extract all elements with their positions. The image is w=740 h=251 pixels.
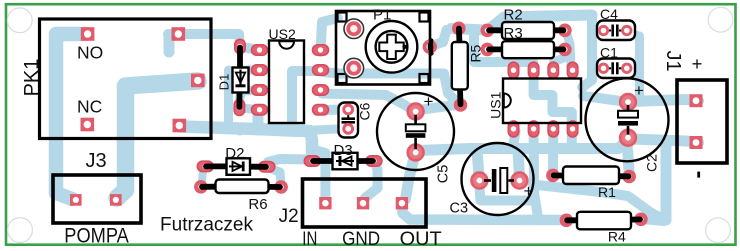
- wire: US1 pin b1 down joining band: [513, 131, 516, 146]
- pad R4 left: [560, 214, 574, 228]
- pad relay mid-right: [191, 74, 205, 88]
- wire: C6 bottom stub to band: [315, 129, 343, 130]
- wire: D2 right pad to D3 left pad: [268, 159, 309, 162]
- wire: stub to C4 left pad: [592, 28, 601, 37]
- wire: band branch down to C3 left pad: [477, 150, 479, 176]
- wire: US1 pin b2 down joining bottom band: [534, 131, 538, 217]
- svg-text:C1: C1: [600, 44, 618, 60]
- wire: R3 right pad jog down to US1 pin t3: [553, 52, 564, 68]
- pad C3 plus: [512, 173, 528, 189]
- wire: J2 OUT pad down then right along bottom to R4 left pad: [402, 205, 564, 220]
- wire: stub down to US1 pin t1: [509, 62, 519, 69]
- pad R5 top: [452, 22, 466, 36]
- wire: drop from R2 band down to US1 pins t1/t2: [474, 31, 533, 69]
- svg-text:R5: R5: [468, 44, 484, 62]
- wire: R2 right pad down to US1 pin t4: [567, 33, 572, 66]
- svg-text:+: +: [424, 92, 434, 111]
- svg-text:C3: C3: [450, 201, 469, 217]
- svg-text:+: +: [692, 53, 703, 74]
- wire: D2 right pad down to R6 right pad: [268, 168, 282, 186]
- pad R3 left: [481, 43, 495, 57]
- pad R1 left: [546, 169, 560, 183]
- wire: stub to C1 left pad: [592, 63, 601, 72]
- svg-text:D2: D2: [225, 145, 244, 162]
- lead R4 right: [629, 216, 640, 222]
- wire: C2 bottom pad right to J1 minus pad: [630, 139, 699, 142]
- wire: C3 left pad stub down to mid band: [479, 186, 480, 201]
- lead R2 right: [553, 27, 564, 33]
- pad R2 left: [481, 24, 495, 38]
- pads US1 top row: [508, 62, 578, 78]
- P1 pad left-bottom (ring): [344, 58, 364, 78]
- pad relay bottom-right: [173, 119, 187, 133]
- wire: US2 pin6 right to C5 top pad: [322, 94, 413, 111]
- wire: C5 bottom pad right band across C3 top: [418, 149, 618, 151]
- pad J2 OUT: [396, 197, 408, 209]
- svg-text:POMPA: POMPA: [64, 224, 129, 248]
- pads US2 left column pins 1-4: [252, 45, 268, 115]
- svg-text:US2: US2: [269, 26, 296, 42]
- pad R6 right: [274, 180, 288, 194]
- pad C5 minus: [408, 145, 424, 161]
- lead D3 right: [356, 158, 373, 164]
- wire: mid band under C3 to b2 riser: [481, 196, 535, 206]
- wire: C5 top pad right to R5 bottom pad: [419, 105, 457, 110]
- wire: US2 pin8 up and right under P1: [321, 18, 339, 52]
- pad J3-1: [70, 194, 82, 206]
- wire: NO pad left & down to J3 left pad: [56, 34, 86, 199]
- svg-text:C5: C5: [436, 165, 452, 184]
- resistor R5 body: [452, 42, 468, 90]
- svg-text:R3: R3: [504, 25, 523, 42]
- mounting hole bottom-left: [8, 218, 33, 243]
- pad J2 IN: [319, 197, 331, 209]
- lead R3 left: [489, 47, 504, 53]
- svg-text:Futrzaczek: Futrzaczek: [160, 213, 253, 235]
- wire: band under R1 from C3 right area curving down to riser: [533, 185, 663, 220]
- lead R1 right: [617, 173, 629, 179]
- pad R2 right: [558, 24, 572, 38]
- svg-text:J1: J1: [662, 50, 684, 71]
- IC US2 outline: [269, 41, 304, 124]
- IC US1 outline: [503, 79, 581, 124]
- svg-text:C6: C6: [357, 102, 373, 120]
- wire: vertical feeder left of C4/C1: [582, 15, 592, 88]
- wire: R2 left pad jog up to top band toward C4: [488, 15, 592, 30]
- wire: US2 pin7 right band across P1 bottom to R5 bottom pad: [322, 72, 457, 103]
- lead R4 left: [567, 217, 579, 223]
- svg-text:D1: D1: [217, 74, 232, 91]
- capacitor C3 outline + symbol: [462, 143, 534, 215]
- pad C5 plus: [408, 104, 424, 120]
- diode D3 body + symbol: [333, 153, 358, 170]
- wire: US2 pin7 left then down joining band: [292, 71, 318, 128]
- wire: relay top-right pad right, down to D1 top, right to US2 pin1: [168, 34, 257, 50]
- pads US2 right column pins 8-5: [313, 45, 329, 115]
- connector J1 outline: [677, 80, 727, 163]
- wire: stub C1 right pad to feeder: [627, 68, 640, 69]
- svg-text:R4: R4: [608, 228, 626, 244]
- pad D1 top: [235, 39, 245, 53]
- wire: J2 IN pad up then left to D3 net: [314, 150, 325, 201]
- svg-text:P1: P1: [373, 7, 391, 24]
- resistor R2 body: [502, 22, 554, 39]
- wire: C2 bottom pad down to R1 right pad: [627, 140, 630, 174]
- pad D2 right: [259, 162, 275, 172]
- resistor R3 body: [502, 41, 554, 58]
- svg-text:NC: NC: [77, 97, 102, 117]
- capacitor C1 body: [597, 59, 635, 79]
- wire: US1 right edge band to C2 top pad: [583, 96, 624, 102]
- pad R1 right: [622, 170, 636, 184]
- wire: US1 internal stair pin t2 to pin b4: [534, 74, 572, 126]
- relay PK1 outline: [40, 19, 212, 139]
- pad J2 GND: [357, 197, 369, 209]
- pad D3 left: [304, 156, 320, 166]
- wire: US2 pin4 to D1 bottom pad: [241, 108, 257, 110]
- lead R3 right: [553, 47, 564, 53]
- lead R2 left: [489, 27, 504, 33]
- wire: US2 pin5 to C6 top pad: [322, 105, 343, 116]
- pad R3 right: [558, 43, 572, 57]
- pad C2 minus: [620, 130, 636, 146]
- pad J1 minus: [690, 136, 703, 149]
- svg-text:NO: NO: [77, 43, 103, 63]
- lead D1 bottom: [236, 92, 242, 107]
- capacitor C5 outline + symbol: [377, 93, 454, 170]
- svg-text:PK1: PK1: [21, 59, 43, 97]
- pad relay NO: [81, 27, 95, 41]
- svg-text:R6: R6: [248, 196, 267, 213]
- svg-text:IN: IN: [302, 228, 317, 250]
- wire: band end up to C2 bottom vertical: [618, 144, 623, 149]
- wire: D2 left pad down to R6 left pad: [202, 167, 204, 185]
- pad D1 bottom: [234, 100, 244, 116]
- trimmer P1 body: [336, 11, 435, 85]
- svg-text:R1: R1: [598, 184, 616, 200]
- pad R6 left: [194, 180, 208, 194]
- pad D2 left: [197, 161, 213, 171]
- svg-text:GND: GND: [342, 228, 380, 250]
- mounting hole top-left: [7, 8, 32, 33]
- lead P1 wiper: [428, 41, 434, 53]
- lead R1 left: [554, 172, 566, 178]
- wire: C3 right pad up joining band: [518, 151, 520, 177]
- pad R4 right: [634, 213, 648, 227]
- svg-text:D3: D3: [334, 142, 353, 159]
- lead D1 top: [237, 48, 243, 69]
- diode D2 body + symbol: [227, 158, 251, 175]
- mounting hole top-right: [708, 7, 733, 32]
- wire: R4 right pad connector to riser: [642, 219, 664, 221]
- pad relay NC: [81, 118, 95, 132]
- svg-text:C2: C2: [644, 154, 660, 172]
- capacitor C6 body: [339, 103, 359, 138]
- svg-text:R2: R2: [504, 6, 523, 23]
- pad J1 plus: [690, 94, 703, 107]
- wire: US1 pin b4 down joining band: [567, 131, 577, 146]
- svg-text:C4: C4: [600, 6, 618, 22]
- lead D2 right: [248, 164, 266, 170]
- diode D1 body + symbol: [233, 68, 249, 93]
- capacitor C4 body: [597, 21, 635, 41]
- wire: relay top-right stub down to coil band: [164, 35, 175, 52]
- pads US1 bottom row: [508, 121, 578, 137]
- resistor R1 body: [563, 167, 619, 185]
- svg-text:J2: J2: [279, 206, 299, 227]
- wire: relay bottom-right pad right then down to D3 left pad: [181, 127, 312, 158]
- mounting hole bottom-right: [706, 218, 731, 243]
- lead R5 bottom: [457, 88, 463, 105]
- pad C3 minus: [472, 173, 488, 189]
- wire: C4/C1 right pads vertical feeder: [627, 33, 640, 97]
- wire: US2 pin4 down to band: [253, 111, 264, 130]
- svg-text:J3: J3: [86, 150, 107, 172]
- wire: D3 right pad down to J2 GND pad: [363, 162, 377, 202]
- wire: US2 pin3 to D1 bottom pad: [240, 90, 258, 105]
- wire: J3 right pad up then right to relay mid-right pad: [117, 81, 198, 198]
- wire: R5 top pad to R2 left pad: [451, 29, 486, 31]
- svg-text:OUT: OUT: [400, 228, 442, 250]
- svg-text:+: +: [634, 81, 644, 100]
- P1 pad wiper (ring): [424, 41, 435, 52]
- wire: US2 pin2 left under D1, down left side of D1 joining band: [240, 66, 254, 75]
- pad C2 plus: [620, 94, 636, 110]
- lead R6 right: [267, 184, 280, 190]
- pad R5 bottom: [454, 98, 468, 112]
- wire: C5 bottom pad down to J2 OUT pad: [406, 156, 415, 199]
- resistor R4 body: [577, 212, 631, 230]
- lead R6 left: [202, 184, 217, 190]
- lead D3 left: [313, 158, 334, 164]
- label J1 minus: [697, 172, 700, 178]
- wire: P1 wiper pad to R5 top pad: [430, 30, 447, 47]
- wire: US1 pin b3 down to R1 left pad: [548, 131, 558, 172]
- capacitor C2 outline + symbol: [586, 78, 669, 161]
- pad D3 right: [366, 156, 382, 166]
- resistor R6 body: [216, 180, 269, 194]
- svg-text:US1: US1: [488, 91, 504, 118]
- lead R5 top: [456, 29, 462, 45]
- pad relay top-right: [172, 27, 186, 41]
- connector J2 outline: [303, 179, 427, 227]
- P1 pad left-top (ring): [344, 19, 364, 39]
- wire: C2 top pad right to J1 plus pad: [630, 100, 699, 102]
- wire: riser up to J1 minus band: [661, 142, 672, 220]
- svg-text:+: +: [524, 182, 534, 201]
- pad J3-2: [110, 194, 122, 206]
- lead D2 left: [206, 163, 228, 169]
- connector J3 outline: [53, 175, 141, 223]
